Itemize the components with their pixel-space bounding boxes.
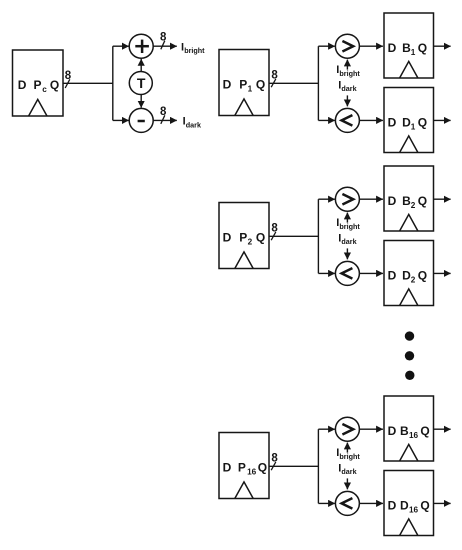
svg-text:B: B [400,424,409,438]
svg-text:dark: dark [341,467,356,476]
svg-text:D: D [388,424,397,438]
bus-width slash (P16 output) [271,462,276,470]
svg-text:1: 1 [248,85,253,94]
svg-text:Q: Q [258,461,267,475]
flip-flop D1 [384,88,434,153]
net label Ibright (16) [336,447,360,461]
flip-flop B2 [384,166,434,231]
branch node vertical wire (1) [317,46,319,120]
svg-text:c: c [42,85,47,94]
bus-width label 8 (Ibright bus) [160,31,167,43]
flip-flop P1 [219,50,269,116]
svg-text:2: 2 [411,201,416,210]
wire adder output to Ibright [153,45,177,47]
svg-text:Q: Q [420,499,429,513]
svg-text:2: 2 [248,238,253,247]
wire branch to subtractor [113,119,129,121]
wire PC.Q to branch node [63,82,113,84]
svg-text:D: D [18,78,27,92]
output arrow D2.Q [434,272,451,274]
svg-text:P: P [238,461,246,475]
wire P2.Q to branch node 2 [269,235,318,237]
output arrow B2.Q [434,198,451,200]
svg-text:bright: bright [339,69,360,78]
arrow Ibright into GT1 [346,60,348,70]
svg-text:D: D [388,116,397,130]
flip-flop P2 [219,203,269,269]
net label Ibright (left) [181,41,205,55]
wire subtractor output to Idark [153,119,177,121]
flip-flop B1 [384,13,434,78]
flip-flop D2 [384,241,434,306]
svg-text:D: D [388,194,397,208]
svg-text:16: 16 [409,506,419,515]
wire branch to comparator LT2 [318,272,335,274]
comparator LT2 (<) [335,261,359,285]
bus-width label 8 (P2 output) [271,222,278,234]
arrow Idark into LT1 [346,95,348,106]
svg-text:8: 8 [271,69,278,81]
net label Ibright (1) [336,64,360,78]
svg-text:D: D [388,499,397,513]
svg-text:8: 8 [160,106,167,118]
svg-text:2: 2 [411,276,416,285]
clock triangle B16 [400,444,418,461]
svg-text:D: D [388,41,397,55]
svg-text:8: 8 [65,70,72,82]
output arrow B1.Q [434,45,451,47]
flip-flop P16 [219,433,269,499]
output arrow B16.Q [434,428,451,430]
comparator GT16 (>) [335,417,359,441]
svg-text:P: P [239,78,247,92]
svg-text:Q: Q [418,269,427,283]
net label Ibright (2) [336,217,360,231]
svg-text:Q: Q [256,78,265,92]
arrow Ibright into GT16 [346,443,348,453]
flip-flop B16 [384,396,434,461]
wire branch to comparator GT2 [318,198,335,200]
subtractor (-) [129,108,153,132]
threshold register T [129,72,152,95]
wire branch to comparator LT16 [318,502,335,504]
wire GT2 to B2.D [359,198,383,200]
svg-text:P: P [239,231,247,245]
arrow Ibright into GT2 [346,213,348,223]
svg-text:16: 16 [409,431,419,440]
wire GT1 to B1.D [359,45,383,47]
adder (+) [129,34,153,58]
net label Idark (16) [338,462,356,476]
svg-text:D: D [223,461,232,475]
wire branch to comparator GT16 [318,428,335,430]
ellipsis dots (repeat indicator) [405,331,415,380]
bus-width slash (Ibright bus) [161,41,165,50]
flip-flop D16 [384,471,434,536]
bus-width slash (P2 output) [271,232,276,240]
svg-text:Q: Q [418,41,427,55]
comparator LT16 (<) [335,491,359,515]
svg-text:dark: dark [341,237,356,246]
clock triangle D2 [400,289,418,306]
wire GT16 to B16.D [359,428,383,430]
bus-width label 8 (P1 output) [271,69,278,81]
arrow Idark into LT2 [346,248,348,259]
wire P16.Q to branch node 16 [269,465,318,467]
svg-text:D: D [223,78,232,92]
clock triangle PC [29,99,47,116]
svg-text:dark: dark [186,120,201,129]
svg-text:Q: Q [418,116,427,130]
clock triangle B2 [400,214,418,231]
clock triangle P2 [235,252,253,269]
comparator GT2 (>) [335,187,359,211]
clock triangle B1 [400,61,418,78]
clock triangle P1 [235,99,253,116]
branch node vertical wire (2) [317,199,319,273]
arrow T to adder [140,59,142,71]
svg-text:bright: bright [339,452,360,461]
svg-text:1: 1 [411,123,416,132]
wire branch to comparator LT1 [318,119,335,121]
svg-text:P: P [33,78,41,92]
wire LT2 to D2.D [359,272,383,274]
net label Idark (1) [338,79,356,93]
svg-text:Q: Q [256,231,265,245]
svg-text:dark: dark [341,84,356,93]
wire branch to comparator GT1 [318,45,335,47]
svg-text:8: 8 [271,452,278,464]
clock triangle P16 [235,482,253,499]
branch node vertical wire (left) [112,46,114,120]
svg-text:bright: bright [184,46,205,55]
wire LT1 to D1.D [359,119,383,121]
bus-width label 8 (P16 output) [271,452,278,464]
net label Idark (left) [183,115,201,129]
wire P1.Q to branch node 1 [269,82,318,84]
arrow T to subtractor [140,94,142,107]
clock triangle D16 [400,519,418,536]
svg-text:8: 8 [271,222,278,234]
flip-flop PC [13,50,64,116]
branch node vertical wire (16) [317,429,319,503]
svg-text:bright: bright [339,222,360,231]
svg-text:D: D [388,269,397,283]
svg-text:Q: Q [50,78,59,92]
svg-text:16: 16 [247,468,257,477]
comparator LT1 (<) [335,108,359,132]
comparator GT1 (>) [335,34,359,58]
svg-text:1: 1 [411,48,416,57]
svg-text:D: D [400,499,409,513]
bus-width slash (Idark bus) [161,115,165,124]
bus-width label 8 (PC output) [65,70,72,82]
output arrow D16.Q [434,502,451,504]
output arrow D1.Q [434,119,451,121]
bus-width label 8 (Idark bus) [160,106,167,118]
svg-text:8: 8 [160,31,167,43]
wire LT16 to D16.D [359,502,383,504]
wire branch to adder [113,45,129,47]
arrow Idark into LT16 [346,478,348,489]
svg-text:Q: Q [418,194,427,208]
net label Idark (2) [338,232,356,246]
bus-width slash (P1 output) [271,79,276,87]
svg-text:D: D [223,231,232,245]
bus-width slash (PC output) [65,79,70,88]
svg-text:Q: Q [420,424,429,438]
clock triangle D1 [400,136,418,153]
svg-text:T: T [137,75,146,91]
